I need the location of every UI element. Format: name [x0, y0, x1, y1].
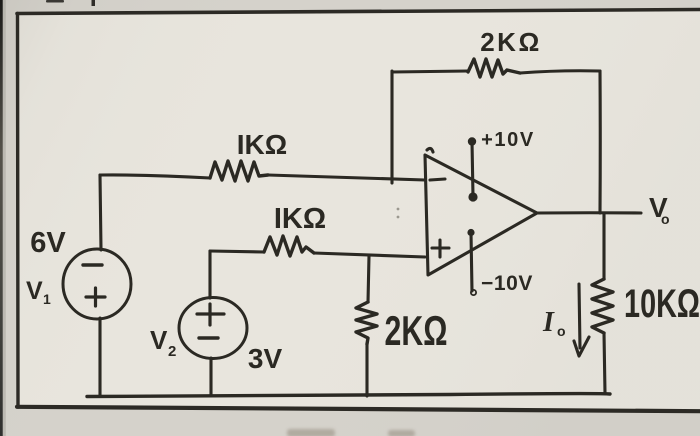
svg-text:I: I [542, 307, 555, 338]
svg-text:2: 2 [168, 343, 176, 360]
svg-text:1: 1 [43, 291, 51, 307]
svg-text:10KΩ: 10KΩ [624, 281, 700, 326]
svg-text:2KΩ: 2KΩ [385, 307, 448, 354]
svg-text:3V: 3V [248, 343, 283, 374]
svg-text:o: o [557, 323, 566, 339]
svg-text:IKΩ: IKΩ [237, 129, 287, 160]
svg-text:6V: 6V [30, 227, 66, 259]
svg-text:V: V [26, 277, 43, 305]
svg-text:o: o [661, 211, 670, 227]
svg-text:+10V: +10V [481, 129, 535, 151]
svg-text:−10V: −10V [481, 272, 533, 295]
svg-text:2KΩ: 2KΩ [480, 27, 542, 57]
svg-text:V: V [150, 325, 168, 355]
svg-text:IKΩ: IKΩ [274, 203, 326, 235]
